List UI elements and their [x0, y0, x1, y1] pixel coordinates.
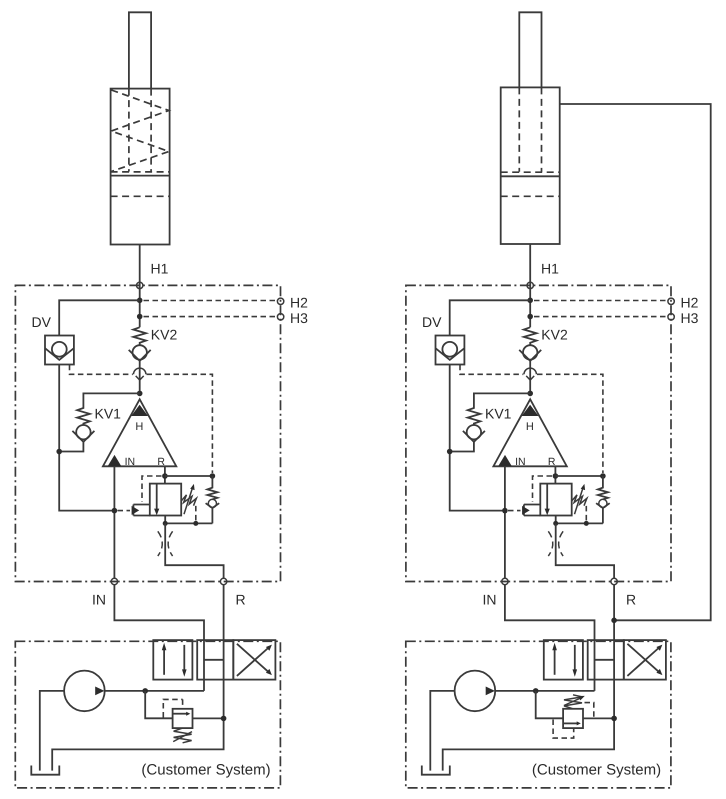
svg-text:H: H	[135, 421, 143, 433]
svg-text:KV1: KV1	[95, 406, 122, 422]
svg-text:H3: H3	[290, 310, 308, 326]
svg-text:R: R	[236, 592, 246, 608]
svg-text:KV2: KV2	[151, 327, 178, 343]
svg-text:H2: H2	[290, 295, 308, 311]
svg-text:IN: IN	[92, 592, 106, 608]
svg-text:(Customer System): (Customer System)	[141, 762, 270, 779]
svg-text:IN: IN	[125, 456, 136, 468]
svg-text:H1: H1	[151, 261, 169, 277]
svg-text:DV: DV	[32, 314, 52, 330]
